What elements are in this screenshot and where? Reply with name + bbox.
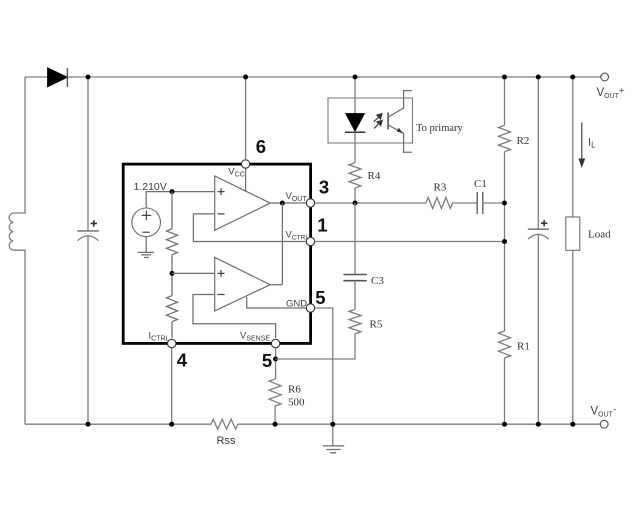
resistor R2 bbox=[499, 125, 511, 151]
node U1A output junction bbox=[280, 201, 285, 206]
svg-text:500: 500 bbox=[288, 396, 305, 408]
wire GND pin to ground rail bbox=[315, 308, 333, 446]
svg-text:Load: Load bbox=[588, 229, 611, 241]
wire sense node to R5 bottom bbox=[276, 334, 355, 359]
svg-text:5: 5 bbox=[262, 350, 272, 371]
terminal VOUT+ bbox=[601, 73, 609, 81]
svg-text:1: 1 bbox=[317, 215, 327, 236]
svg-text:C1: C1 bbox=[474, 178, 487, 190]
resistor R5 bbox=[349, 309, 361, 333]
svg-text:5: 5 bbox=[315, 287, 325, 308]
wire R6 to rail bbox=[274, 406, 276, 424]
voltage source Vref bbox=[132, 208, 161, 237]
svg-text:To primary: To primary bbox=[416, 123, 464, 134]
load column wire bbox=[572, 77, 574, 217]
pin 6 circle bbox=[241, 160, 249, 168]
wire VCC pin down to opamp bbox=[245, 168, 247, 191]
node sense junction bbox=[273, 357, 278, 362]
resistor Rss bbox=[211, 419, 238, 429]
svg-text:C3: C3 bbox=[371, 275, 384, 287]
op-amp U1B bbox=[215, 257, 271, 311]
resistor internal upper bbox=[167, 229, 178, 255]
wire C1 to node bbox=[483, 202, 505, 204]
pin 3 circle bbox=[306, 199, 314, 207]
terminal VOUT- bbox=[600, 420, 608, 428]
phototransistor bbox=[388, 91, 412, 153]
inductor L1 bbox=[9, 213, 13, 250]
node R4 bottom bbox=[353, 201, 358, 206]
svg-text:Rss: Rss bbox=[217, 435, 236, 447]
wire lower resistor to ICTRL pin bbox=[171, 322, 173, 338]
wire top rail bbox=[25, 76, 601, 78]
pin 4 circle bbox=[168, 339, 176, 347]
wire node6 to pin bbox=[245, 77, 247, 160]
wire bottom rail right segment bbox=[238, 423, 601, 425]
resistor internal lower bbox=[167, 296, 178, 322]
wire mid node to opamp2 plus bbox=[172, 272, 215, 274]
wire R3 to C1 bbox=[453, 202, 478, 204]
pin 5 circle VSENSE bbox=[271, 339, 279, 347]
IL current arrow bbox=[578, 122, 585, 168]
ground symbol under source bbox=[138, 237, 154, 258]
resistor R3 bbox=[426, 198, 453, 209]
wire inductor bottom to rail bbox=[13, 250, 25, 424]
capacitor C right electrolytic bbox=[528, 77, 549, 424]
pin 1 circle bbox=[306, 237, 314, 245]
light arrows bbox=[374, 114, 382, 129]
wire VCTRL row bbox=[315, 241, 505, 243]
svg-text:R5: R5 bbox=[370, 319, 383, 331]
pin 5 circle GND bbox=[306, 304, 314, 312]
wire VOUT row pin3 to R3 bbox=[315, 202, 426, 204]
wire C3 to R5 bbox=[354, 281, 356, 310]
capacitor C1 bbox=[477, 192, 483, 214]
svg-text:4: 4 bbox=[177, 350, 188, 371]
svg-text:R6: R6 bbox=[288, 384, 301, 396]
junction dots top rail bbox=[86, 75, 91, 80]
junction dots bottom rail bbox=[86, 422, 91, 427]
wire top rail into opto bbox=[354, 77, 356, 114]
wire output tie vertical bbox=[281, 203, 283, 285]
junction dots mid bbox=[502, 201, 507, 206]
resistor R6 bbox=[269, 379, 281, 406]
diode D1 bbox=[48, 68, 68, 87]
load resistor box bbox=[566, 217, 580, 250]
wire R2R1 column bbox=[504, 77, 506, 424]
node B divider mid bbox=[170, 271, 175, 276]
op-amp U1A bbox=[215, 176, 271, 230]
capacitor C left electrolytic bbox=[77, 77, 99, 424]
svg-text:GND: GND bbox=[286, 298, 307, 309]
node A junction at ref bbox=[170, 189, 175, 194]
ground symbol bottom bbox=[323, 446, 345, 453]
wire U1B output bbox=[270, 284, 282, 286]
svg-text:R4: R4 bbox=[368, 170, 381, 182]
LED in opto bbox=[345, 114, 366, 133]
svg-text:R2: R2 bbox=[517, 135, 530, 147]
wire U1B inverting feedback to VSENSE bbox=[193, 295, 276, 339]
wire source top to node bbox=[146, 192, 215, 208]
wire U1A output bbox=[270, 202, 306, 204]
resistor R4 bbox=[349, 163, 361, 188]
optocoupler box bbox=[328, 98, 413, 143]
wire node to upper internal resistor bbox=[171, 192, 173, 229]
svg-text:R3: R3 bbox=[434, 182, 447, 194]
wire left column bbox=[13, 77, 25, 213]
wire opto to R4 bbox=[354, 132, 356, 163]
wire bottom rail left segment bbox=[25, 423, 211, 425]
svg-text:6: 6 bbox=[256, 136, 266, 157]
wire U1A inverting feedback to VCTRL bbox=[193, 214, 306, 242]
wire to mid node bbox=[171, 255, 173, 296]
wire U1B gnd to GND pin bbox=[247, 297, 307, 308]
wire load to bottom rail bbox=[572, 250, 574, 424]
capacitor C3 bbox=[343, 275, 366, 281]
wire C3 column from VOUT row bbox=[354, 203, 356, 274]
IC box U1 bbox=[123, 164, 310, 343]
wire VSENSE pin down bbox=[275, 348, 277, 379]
resistor R1 bbox=[499, 331, 511, 358]
wire ICTRL pin to bottom rail bbox=[171, 348, 173, 425]
svg-text:R1: R1 bbox=[517, 340, 530, 352]
wire R4 to VOUT row bbox=[354, 188, 356, 203]
svg-text:3: 3 bbox=[319, 176, 329, 197]
